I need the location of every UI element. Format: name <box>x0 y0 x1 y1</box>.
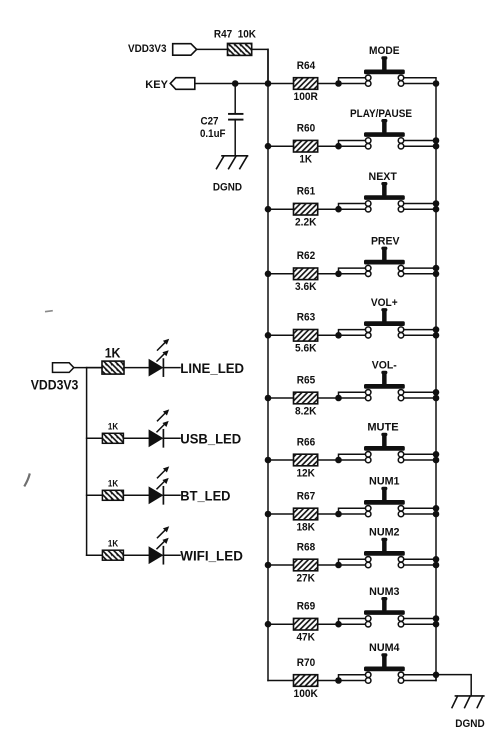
wire switch NEXT to right bus <box>404 204 436 210</box>
svg-text:R65: R65 <box>297 374 315 386</box>
resistor R70 100K <box>294 657 319 700</box>
junction right bus row PLAY_PAUSE <box>433 137 440 149</box>
junction left bus row R60 <box>265 143 272 150</box>
wire switch VOL- to right bus <box>404 392 436 398</box>
svg-text:R47 10K: R47 10K <box>214 28 256 40</box>
resistor R66 12K <box>294 436 318 479</box>
wire bus to resistor (LINE_LED row) <box>87 367 102 369</box>
junction right bus row VOL- <box>433 389 440 401</box>
LED WIFI_LED <box>149 526 170 564</box>
junction node R68/switch <box>335 562 342 569</box>
resistor R65 8.2K <box>294 374 318 417</box>
junction node R66/switch <box>335 457 342 464</box>
junction right bus row VOL+ <box>433 326 440 338</box>
junction left bus row R63 <box>265 332 272 339</box>
wire bus to R70 <box>268 680 294 682</box>
resistor R64 100R <box>294 60 319 103</box>
wire R61 to switch NEXT <box>318 204 366 210</box>
wire LED left bus <box>86 368 88 556</box>
wire bus to resistor (BT_LED row) <box>87 494 102 496</box>
wire LED to label USB_LED <box>163 437 180 439</box>
wire bus to R61 <box>268 208 294 210</box>
svg-text:DGND: DGND <box>455 718 484 730</box>
svg-text:1K: 1K <box>108 538 119 548</box>
switch NUM1 <box>364 476 405 517</box>
wire R63 to switch VOL+ <box>318 330 366 336</box>
wire R60 to switch PLAY/PAUSE <box>318 141 366 147</box>
connector KEY <box>145 78 195 91</box>
resistor R63 5.6K <box>294 312 318 355</box>
resistor R67 18K <box>294 490 318 533</box>
wire switch MODE to right bus <box>404 78 436 84</box>
wire right bus <box>435 84 437 681</box>
svg-text:PLAY/PAUSE: PLAY/PAUSE <box>350 108 412 120</box>
resistor R68 27K <box>294 541 318 584</box>
svg-text:DGND: DGND <box>213 181 242 193</box>
svg-text:27K: 27K <box>296 572 315 584</box>
switch NUM4 <box>364 642 405 683</box>
wire R67 to switch NUM1 <box>318 508 366 514</box>
svg-text:1K: 1K <box>108 479 119 489</box>
svg-text:MODE: MODE <box>369 45 400 57</box>
wire bus to R69 <box>268 623 294 625</box>
svg-text:NUM1: NUM1 <box>369 476 400 488</box>
svg-text:R68: R68 <box>297 541 315 553</box>
capacitor C27 0.1uF <box>200 84 243 156</box>
svg-text:NUM4: NUM4 <box>369 642 400 654</box>
svg-text:R66: R66 <box>297 436 315 448</box>
resistor R62 3.6K <box>294 250 318 293</box>
junction node R62/switch <box>335 271 342 278</box>
wire bus to resistor (WIFI_LED row) <box>87 554 102 556</box>
wire bus to R60 <box>268 145 294 147</box>
junction left bus row R69 <box>265 621 272 628</box>
wire bus to R64 <box>268 83 294 85</box>
junction left bus row R61 <box>265 206 272 213</box>
junction right bus row NUM2 <box>433 556 440 568</box>
svg-text:USB_LED: USB_LED <box>180 431 241 447</box>
junction right bus row NUM1 <box>433 505 440 517</box>
resistor R47 10K <box>214 28 256 55</box>
junction left bus row R68 <box>265 562 272 569</box>
wire bus to R63 <box>268 334 294 336</box>
switch MODE <box>364 45 405 86</box>
svg-text:R69: R69 <box>297 601 315 613</box>
wire R64 to switch MODE <box>318 78 366 84</box>
junction node R70/switch <box>335 677 342 684</box>
svg-text:VOL+: VOL+ <box>371 297 398 309</box>
switch NUM2 <box>364 527 405 568</box>
svg-text:R63: R63 <box>297 312 315 324</box>
junction right bus row NUM3 <box>433 615 440 627</box>
wire switch PLAY_PAUSE to right bus <box>404 141 436 147</box>
svg-text:VOL-: VOL- <box>372 360 397 372</box>
svg-text:100K: 100K <box>294 688 318 700</box>
svg-text:PREV: PREV <box>371 235 400 247</box>
wire R69 to switch NUM3 <box>318 619 366 625</box>
wire LED to label LINE_LED <box>163 367 180 369</box>
wire resistor to LED (USB_LED row) <box>123 437 148 439</box>
junction right bus row NEXT <box>433 200 440 212</box>
wire bus to R66 <box>268 459 294 461</box>
svg-text:VDD3V3: VDD3V3 <box>31 378 79 393</box>
junction left bus row R67 <box>265 511 272 518</box>
wire R62 to switch PREV <box>318 268 366 274</box>
wire bus to R67 <box>268 513 294 515</box>
svg-text:R67: R67 <box>297 490 315 502</box>
svg-text:2.2K: 2.2K <box>295 217 317 229</box>
ground DGND (top) <box>213 156 248 194</box>
node WIFI_LED <box>180 547 243 563</box>
switch PLAY/PAUSE <box>350 108 412 149</box>
svg-text:WIFI_LED: WIFI_LED <box>180 547 243 563</box>
LED LINE_LED <box>149 339 170 377</box>
switch VOL- <box>364 360 405 401</box>
resistor 1K (USB_LED row) <box>102 422 123 444</box>
svg-text:18K: 18K <box>296 521 315 533</box>
stray scan mark (tick) <box>25 475 30 486</box>
node BT_LED <box>180 488 230 504</box>
wire bus to R65 <box>268 397 294 399</box>
svg-text:1K: 1K <box>105 345 121 361</box>
svg-text:NUM3: NUM3 <box>369 586 399 598</box>
svg-text:12K: 12K <box>296 467 315 479</box>
svg-text:VDD3V3: VDD3V3 <box>128 43 167 55</box>
resistor R60 1K <box>294 123 318 166</box>
wire R70 to switch NUM4 <box>318 675 366 681</box>
wire switch MUTE to right bus <box>404 454 436 460</box>
wire VDD3V3 to LED rail <box>74 367 102 369</box>
svg-text:1K: 1K <box>108 422 119 432</box>
junction node R64/switch <box>335 80 342 87</box>
wire KEY to main bus <box>195 83 268 85</box>
junction right bus row MUTE <box>433 451 440 463</box>
svg-text:NEXT: NEXT <box>369 171 398 183</box>
wire resistor to LED (BT_LED row) <box>123 494 148 496</box>
wire main left bus <box>267 49 269 680</box>
junction node R69/switch <box>335 621 342 628</box>
svg-text:C27: C27 <box>201 115 219 127</box>
svg-text:1K: 1K <box>299 154 312 166</box>
junction node R61/switch <box>335 206 342 213</box>
wire switch NUM4 to right bus <box>404 675 436 681</box>
svg-text:5.6K: 5.6K <box>295 343 317 355</box>
switch NEXT <box>364 171 405 212</box>
wire bus to R68 <box>268 564 294 566</box>
svg-text:MUTE: MUTE <box>367 422 398 434</box>
junction left bus row R65 <box>265 395 272 402</box>
svg-text:R70: R70 <box>297 657 315 669</box>
power flag VDD3V3 <box>128 43 197 55</box>
svg-text:R60: R60 <box>297 123 315 135</box>
wire bus to resistor (USB_LED row) <box>87 437 102 439</box>
junction right bus row NUM4 <box>433 672 440 679</box>
node LINE_LED <box>180 360 244 376</box>
junction node R67/switch <box>335 511 342 518</box>
wire R68 to switch NUM2 <box>318 559 366 565</box>
wire bus to R62 <box>268 273 294 275</box>
node USB_LED <box>180 431 241 447</box>
wire LED to label BT_LED <box>163 494 180 496</box>
svg-text:R62: R62 <box>297 250 315 262</box>
LED BT_LED <box>149 466 170 504</box>
junction right bus row MODE <box>433 80 440 87</box>
svg-text:LINE_LED: LINE_LED <box>180 360 244 376</box>
junction left bus row R66 <box>265 457 272 464</box>
resistor R69 47K <box>294 601 318 644</box>
wire R66 to switch MUTE <box>318 454 366 460</box>
switch PREV <box>364 235 405 276</box>
svg-text:100R: 100R <box>294 91 318 103</box>
ground DGND (bottom right) <box>452 696 485 730</box>
wire R65 to switch VOL- <box>318 392 366 398</box>
wire VDD3V3 to R47 <box>197 48 228 50</box>
svg-text:KEY: KEY <box>145 79 168 91</box>
wire right bus to DGND <box>436 675 471 696</box>
wire switch NUM3 to right bus <box>404 619 436 625</box>
resistor 1K (BT_LED row) <box>102 479 123 501</box>
svg-text:R64: R64 <box>297 60 315 72</box>
junction left bus row R64 <box>265 80 272 87</box>
wire switch NUM1 to right bus <box>404 508 436 514</box>
wire R47 to main bus <box>252 49 268 83</box>
wire LED to label WIFI_LED <box>163 554 180 556</box>
wire resistor to LED (WIFI_LED row) <box>123 554 148 556</box>
junction right bus row PREV <box>433 265 440 277</box>
resistor 1K (WIFI_LED row) <box>102 538 123 560</box>
svg-text:NUM2: NUM2 <box>369 527 400 539</box>
wire switch PREV to right bus <box>404 268 436 274</box>
wire resistor to LED (LINE_LED row) <box>124 367 149 369</box>
junction left bus row R62 <box>265 271 272 278</box>
LED USB_LED <box>149 409 170 447</box>
resistor 1K (LINE_LED row) <box>102 345 124 375</box>
wire switch VOL+ to right bus <box>404 330 436 336</box>
svg-text:BT_LED: BT_LED <box>180 488 230 504</box>
junction node R63/switch <box>335 332 342 339</box>
switch VOL+ <box>364 297 405 338</box>
junction KEY/C27 <box>232 80 239 87</box>
junction node R60/switch <box>335 143 342 150</box>
power flag VDD3V3 (LED rail) <box>31 363 79 393</box>
switch MUTE <box>364 422 405 463</box>
svg-text:8.2K: 8.2K <box>295 405 317 417</box>
wire switch NUM2 to right bus <box>404 559 436 565</box>
svg-text:R61: R61 <box>297 186 315 198</box>
junction node R65/switch <box>335 395 342 402</box>
switch NUM3 <box>364 586 405 627</box>
svg-text:0.1uF: 0.1uF <box>200 128 226 140</box>
svg-text:3.6K: 3.6K <box>295 281 317 293</box>
svg-text:47K: 47K <box>296 632 315 644</box>
resistor R61 2.2K <box>294 186 318 229</box>
stray scan mark (dash) <box>46 310 52 313</box>
